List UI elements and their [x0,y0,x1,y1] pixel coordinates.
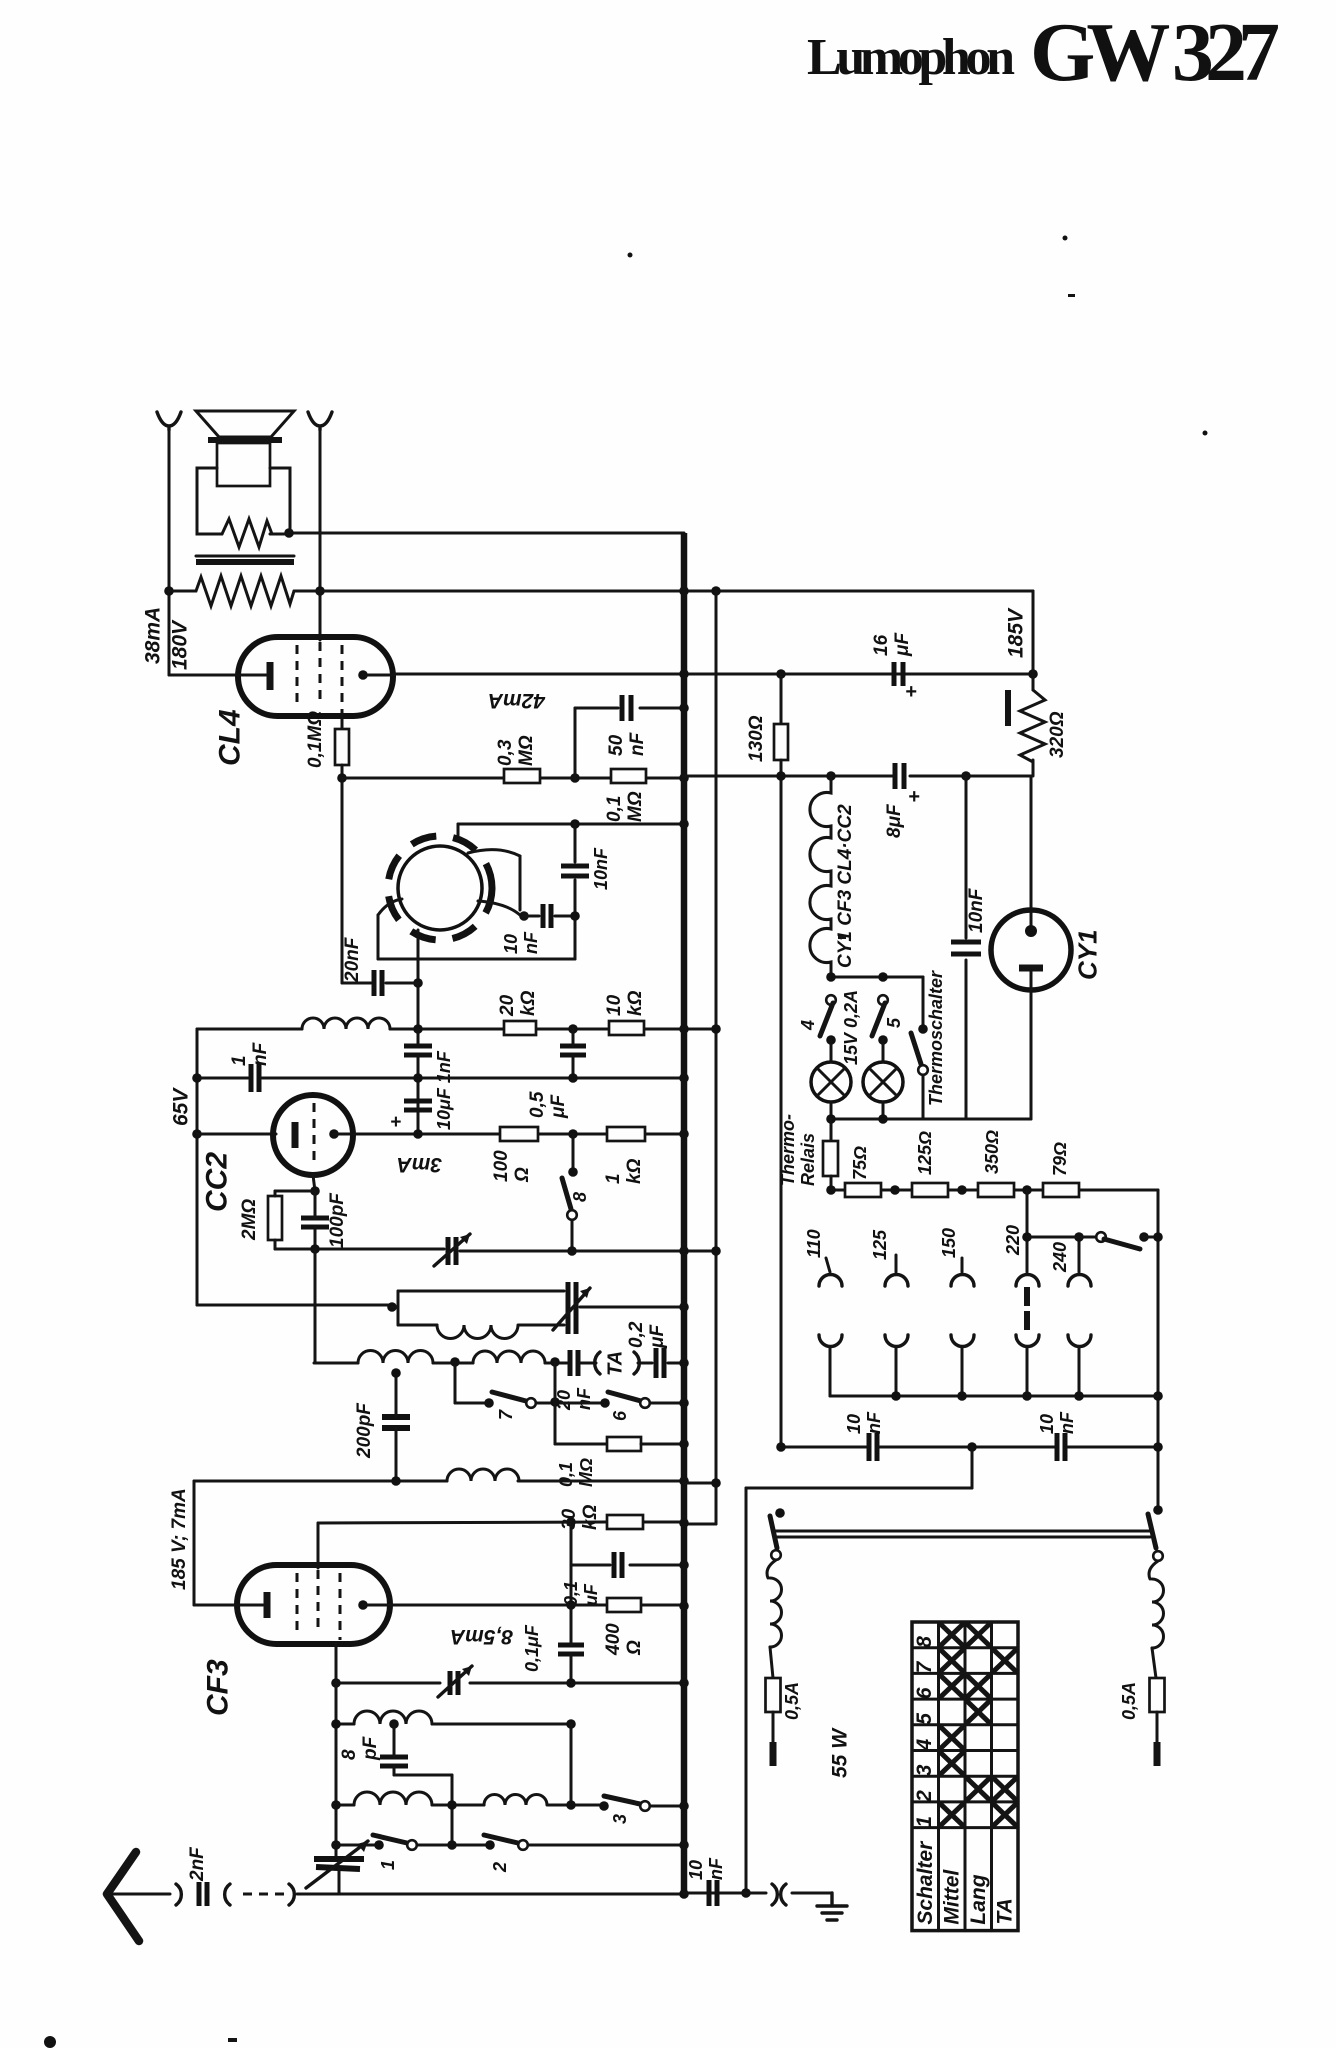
node y1724 x571 [566,1719,576,1729]
svg-text:2nF: 2nF [187,1846,208,1882]
node x1079 y1237 [1074,1232,1084,1242]
svg-text:nF: nF [1057,1411,1077,1434]
tube CL4 grid dash 1 [296,645,299,705]
svg-text:1: 1 [229,1055,250,1066]
node y1805 x336 [331,1800,341,1810]
node y977 x883 [878,972,888,982]
trimmer capacitor AVC [446,1237,451,1265]
page speck 1 [628,253,633,258]
wire eye box left x378 [377,915,380,959]
node y1251 x572 [567,1246,577,1256]
svg-text:pF: pF [360,1735,381,1761]
svg-text:Mittel: Mittel [941,1869,964,1925]
node y1447 x972 [967,1442,977,1452]
capacitor 0,2uF TA [654,1348,659,1378]
node x1158 y1237 [1153,1232,1163,1242]
wire B+ y776 right [684,775,892,778]
svg-text:nF: nF [864,1411,884,1434]
wire y1444 left [555,1443,607,1446]
page speck 5 [1203,431,1208,436]
wire trimmer stub [338,1869,341,1894]
wire vertical x716 [715,591,718,1524]
tube CC2 grid dash [313,1103,316,1167]
output transformer core thin line [196,555,294,558]
node y1363 x684 [679,1358,689,1368]
switch 7 wire drop [454,1362,457,1403]
switch 3 pivot [599,1801,609,1811]
node y1481 x396 [391,1476,401,1486]
wire osc to bus y1307 [580,1306,684,1309]
wire 400Ohm row [571,1604,607,1607]
tap 125 contact [885,1275,908,1287]
tap 110 contact [819,1275,842,1287]
thermoswitch contact [918,1065,928,1075]
coil antenna circuit B y1363 [473,1351,545,1363]
svg-text:320Ω: 320Ω [1047,711,1068,758]
resistor 0,1MOhm osc [607,1437,641,1451]
wire 200pF leads [395,1373,398,1417]
node speaker-transformer junction [284,528,294,538]
svg-text:38mA: 38mA [141,607,164,664]
page speck 4 [838,936,846,939]
svg-text:75Ω: 75Ω [850,1146,870,1180]
wire y1481 rail [194,1480,447,1483]
node y1363 x455 [450,1357,460,1367]
thermoswitch riser [922,977,925,1029]
node x1158 y1448 [1153,1442,1163,1452]
resistor 130Ohm [774,724,788,760]
node y1845 x684 [679,1840,689,1850]
node y1403 x684 [679,1398,689,1408]
speaker pole bar [208,437,282,443]
node y1805 x452 [447,1800,457,1810]
switch 6 contact [640,1398,650,1408]
svg-text:Lumophon: Lumophon [807,29,1015,86]
tube CL4 anode lead [363,674,393,677]
switch 5 fixed contact [878,995,888,1005]
svg-text:+: + [390,1112,401,1133]
node y1078 x418 [413,1073,423,1083]
node y1028 x684 [679,1024,689,1034]
tube CF3 anode dot [358,1600,368,1610]
node y1078 x684 [679,1073,689,1083]
capacitor 0,1uF screen [612,1552,617,1578]
wire y1403 left [455,1402,489,1405]
svg-text:Thermoschalter: Thermoschalter [926,970,946,1106]
switch 5 pivot [878,1035,888,1045]
svg-text:Ω: Ω [624,1640,645,1656]
capacitor 10nF eye anode [561,864,589,869]
svg-text:10: 10 [604,994,625,1016]
coil antenna circuit A y1363 [358,1351,433,1364]
capacitor 16uF electrolytic [892,662,897,686]
svg-text:kΩ: kΩ [625,990,646,1016]
tube CF3 grid dash 1 [296,1573,299,1633]
node y1119 x883 [878,1114,888,1124]
svg-text:CC2: CC2 [200,1152,233,1212]
wire RF filter y1447 mid [880,1446,1054,1449]
svg-text:0,1: 0,1 [556,1462,576,1487]
svg-text:0,5: 0,5 [527,1091,548,1118]
tap 220 stem [1026,1190,1029,1272]
tube CC2 envelope [273,1095,353,1175]
capacitor 1nF left [249,1064,254,1092]
svg-text:185 V; 7mA: 185 V; 7mA [169,1488,190,1590]
switch 6 pivot [600,1398,610,1408]
capacitor 1nF x573 [560,1044,586,1049]
node row x962 [957,1185,967,1195]
svg-text:8,5mA: 8,5mA [450,1625,513,1648]
svg-text:0,1μF: 0,1μF [522,1624,542,1672]
wire 2MOhm leads [274,1191,277,1196]
svg-text:MΩ: MΩ [576,1458,596,1487]
wire coil row y1805 [336,1804,354,1807]
svg-text:150: 150 [939,1228,959,1258]
svg-text:55 W: 55 W [828,1727,851,1778]
coil B y1805 [484,1795,547,1805]
wire x573 link [572,1029,575,1046]
node x396 y1373 [391,1368,401,1378]
svg-text:20: 20 [497,994,518,1017]
svg-text:7: 7 [913,1660,936,1673]
wire osc loop top rail [398,1290,564,1293]
switch 5 lever [872,1003,885,1036]
tube CY1 anode dot [1025,925,1037,937]
resistor 0,1MOhm CL4 grid [335,729,349,765]
wire x315 osc drop [314,1249,317,1363]
mains lead-in pin left [772,1712,775,1742]
tuning eye cathode curve [378,899,402,915]
svg-text:nF: nF [574,1387,594,1410]
node y1845 x452 [447,1840,457,1850]
node y1305 x392 [387,1302,397,1312]
wire eye anode feed y824 [458,823,684,826]
wire y1483 bus to x716 [684,1482,716,1485]
svg-text:μF: μF [892,632,913,657]
svg-text:TA: TA [994,1898,1017,1924]
svg-text:1: 1 [913,1816,936,1828]
tube CL4 grid dash 3 [341,645,344,714]
wire antenna dashes [243,1893,285,1896]
tube CL4 grid dash 2 [319,642,322,702]
terminal Y left [157,412,181,430]
switch 1 contact [407,1840,417,1850]
node y1605 x571 [566,1600,576,1610]
wire CY1 anode lead [1030,776,1033,931]
wire cathode row y1683 [336,1682,440,1685]
node y1683 x571 [566,1678,576,1688]
node field-coil left [164,586,174,596]
wire AVC rail y1078 [197,1077,248,1080]
svg-text:nF: nF [706,1857,726,1880]
node y1363 x555 [550,1357,560,1367]
resistor 100Ohm [500,1127,538,1141]
node y1522 x684 [679,1518,689,1528]
svg-text:50: 50 [606,734,627,756]
svg-text:200pF: 200pF [354,1402,375,1459]
node y1805 x571 [566,1800,576,1810]
speaker voice-coil former [217,443,270,486]
switch 8 contact [567,1210,577,1220]
node y1481 x684 [679,1476,689,1486]
svg-text:μF: μF [548,1094,569,1119]
node y1806 x684 [679,1801,689,1811]
resistor 320Ohm zigzag [1020,690,1045,762]
wire CF3 anode lead [363,1604,390,1607]
wire y1363 mid [433,1362,473,1365]
svg-text:100pF: 100pF [327,1192,348,1248]
mains lead-in pin right [1156,1712,1159,1742]
node y672 x684 [679,669,689,679]
mains switch left lever [770,1516,777,1548]
node y1134 x573 [568,1129,578,1139]
wire x972 drop [971,1447,974,1488]
tap 240 stem [1078,1237,1081,1272]
speaker magnet frame [197,468,290,534]
node y776 x831 [826,771,836,781]
wire CL4 anode to 185V y672 [393,673,1033,676]
svg-text:10μF 1nF: 10μF 1nF [434,1050,454,1130]
thermo relay lead 2 [830,1176,833,1190]
voltage selector switch lever [1104,1239,1140,1249]
tube CF3 cathode bar [264,1592,271,1618]
svg-text:130Ω: 130Ω [746,715,767,762]
svg-text:nF: nF [250,1041,271,1066]
node y1396 x962 [957,1391,967,1401]
capacitor 0,1uF cathode [558,1643,584,1648]
switch 8 lever [562,1178,571,1209]
svg-text:μF: μF [581,1583,601,1607]
switch 6 lever [608,1392,641,1401]
wire CC2 grid lead [313,1175,315,1191]
node x575 y916 [570,911,580,921]
speaker LS cone [196,411,294,437]
tap 220 contact [1016,1275,1039,1287]
node y1565 x684 [679,1560,689,1570]
switch 4 lever [820,1003,833,1036]
node eye grid x524 y916 [519,911,529,921]
svg-text:Lang: Lang [967,1874,990,1924]
svg-text:79Ω: 79Ω [1050,1142,1070,1176]
switch 4 fixed contact [826,995,836,1005]
svg-text:2: 2 [490,1862,510,1873]
switch 7 pivot [484,1398,494,1408]
tap 110 stem [826,1258,830,1272]
wire x320 speaker centre lead [319,428,322,640]
plug pin 220 lower [1016,1335,1039,1347]
wire field coil to 185V corner y591 [294,590,1033,593]
svg-text:CY1: CY1 [1072,929,1102,980]
svg-text:10nF: 10nF [966,887,987,933]
capacitor 10uF electrolytic x418 [404,1099,432,1104]
svg-text:10: 10 [686,1860,706,1880]
svg-text:20nF: 20nF [342,936,363,983]
switch 1 pivot [374,1840,384,1850]
plug pin 240 lower [1068,1335,1091,1347]
node 50nF bus [679,703,689,713]
switch 2 contact [518,1840,528,1850]
svg-text:Relais: Relais [798,1133,818,1186]
svg-text:6: 6 [610,1410,630,1421]
thermoswitch lever [911,1033,921,1064]
wire 8pF leads [393,1724,396,1757]
wire switch 6 to bus [650,1402,684,1405]
plug pin 125 lower [885,1335,908,1347]
wire lamp return y1119 [831,1118,1031,1121]
node y1307 x684 [679,1302,689,1312]
wire antenna ground rail [339,1893,684,1896]
tube CF3 grid dash 2 [317,1570,320,1630]
svg-text:8: 8 [339,1749,360,1760]
thermoswitch pivot [918,1024,928,1034]
node y1119 x831 [826,1114,836,1124]
node y1078 x573 [568,1073,578,1083]
node y1403 x555 [550,1397,560,1407]
svg-text:TA: TA [605,1351,627,1376]
switch table X marks [942,1625,963,1645]
page speck 2 [1063,236,1068,241]
wire x571 osc link [570,1724,573,1805]
resistor 20kOhm [504,1021,536,1035]
node y1251 x684 [679,1246,689,1256]
ground connector arcs [772,1884,786,1905]
capacitor 8pF [380,1755,408,1760]
svg-text:8: 8 [570,1192,590,1202]
heater chain meander [810,776,831,977]
svg-text:kΩ: kΩ [624,1158,645,1184]
bus main vertical x684 [681,533,688,1894]
node y591 x716 [711,586,721,596]
node x1158 y1396 [1153,1391,1163,1401]
node y1894 x684 [679,1889,689,1899]
svg-text:6: 6 [913,1687,936,1699]
wire 50nF branch vertical x575 [574,708,577,778]
antenna connector arc 3 [289,1884,294,1905]
wire coil to bus y1028 [390,1028,504,1031]
svg-text:2MΩ: 2MΩ [239,1199,260,1241]
tuning eye shield dashed ring [388,836,492,940]
mains switch right pivot [1153,1505,1163,1515]
svg-text:240: 240 [1050,1242,1070,1273]
svg-text:GW 327: GW 327 [1030,6,1278,99]
svg-text:CY1 CF3 CL4·CC2: CY1 CF3 CL4·CC2 [835,804,856,968]
node y1724 x336 [331,1719,341,1729]
wire TA to cap [581,1362,596,1365]
node row x895 [890,1185,900,1195]
resistor 350Ohm [978,1183,1014,1197]
capacitor 10nF chassis [707,1880,712,1906]
wire left rail x197 [196,1029,199,1305]
svg-text:+: + [908,786,920,808]
svg-text:CF3: CF3 [201,1659,234,1716]
node y1028 x418 [413,1024,423,1034]
wire eye grid cap lead [524,915,539,918]
tube CL4 cathode lead [169,674,266,677]
wire CC2 cathode lead [197,1133,276,1136]
node y1028 x716 [711,1024,721,1034]
svg-text:220: 220 [1003,1225,1023,1256]
wire CF3 grid drop x336 [335,1644,338,1858]
tap 240 contact [1068,1275,1091,1287]
wire connector to ground [792,1892,832,1895]
resistor 0,3MOhm [504,769,540,783]
fuse choke right [1149,1561,1158,1579]
switch 2 pivot [485,1840,495,1850]
lamp 1 stem top [830,1040,833,1062]
coil IF y1028 [302,1018,390,1029]
svg-text:8: 8 [913,1636,936,1648]
tube CL4 envelope [238,637,393,716]
resistor 2MOhm [268,1196,282,1240]
node y1028 x573 [568,1024,578,1034]
svg-text:4: 4 [798,1020,818,1031]
tube CL4 anode dot [358,670,368,680]
wire x342 long drop [341,778,344,983]
wire grid bottom link y1249 [275,1248,444,1251]
wire x418 to 10uF [417,1029,420,1046]
tap 125 stem [895,1255,898,1272]
node y672 x1033 [1028,669,1038,679]
node row x1027 [1022,1185,1032,1195]
node x315 y1191 [310,1186,320,1196]
capacitor 10nF eye grid [541,904,546,928]
tube CL4 cathode bar [267,662,274,690]
capacitor 10nF mains right [1055,1433,1060,1461]
mains switch left pivot [775,1508,785,1518]
switch table grid [937,1622,940,1931]
node y1724 x394 [389,1719,399,1729]
wire switch 3 to bus [650,1805,684,1808]
svg-text:8μF: 8μF [884,803,905,838]
mains switch right lever [1148,1514,1156,1548]
tube CC2 cathode bar [292,1122,299,1148]
svg-text:5: 5 [884,1017,904,1028]
wire CC2 anode lead [334,1133,353,1136]
svg-text:65V: 65V [169,1087,192,1126]
tuning eye grid curve upper [468,850,520,910]
svg-text:3: 3 [610,1814,630,1824]
node y1396 x895 [891,1391,901,1401]
svg-text:180V: 180V [168,619,191,670]
wire RF filter y1447 left [781,1446,866,1449]
wire x571 cathode link [570,1605,573,1645]
jack TA arcs [595,1352,640,1374]
wire 100pF leads [314,1191,317,1218]
node y1447 x781 [776,1442,786,1452]
fuse 0,5A right [1150,1678,1165,1712]
svg-text:kΩ: kΩ [580,1504,601,1530]
ground symbol [817,1893,847,1920]
wire antenna lead [110,1893,170,1896]
wire osc loop left [392,1306,398,1309]
svg-text:μF: μF [647,1324,668,1349]
wire CL4 grid to resistor [341,714,344,729]
thermo relay heater element [823,1141,838,1176]
switch 8 pivot [568,1167,578,1177]
field coil zigzag primary [169,576,294,606]
svg-text:CL4: CL4 [213,709,246,766]
wire magnet frame to junction [272,533,289,536]
resistor 75Ohm [845,1183,881,1197]
wire y1403 mid [536,1402,605,1405]
coil band y1724 [354,1711,432,1724]
node y1251 x716 [711,1246,721,1256]
wire y1363 right [545,1362,567,1365]
capacitor 20nF eye [372,970,377,996]
wire grid top link y1191 [275,1190,315,1193]
tap 150 stem [961,1258,964,1272]
tube CF3 envelope [237,1565,390,1644]
